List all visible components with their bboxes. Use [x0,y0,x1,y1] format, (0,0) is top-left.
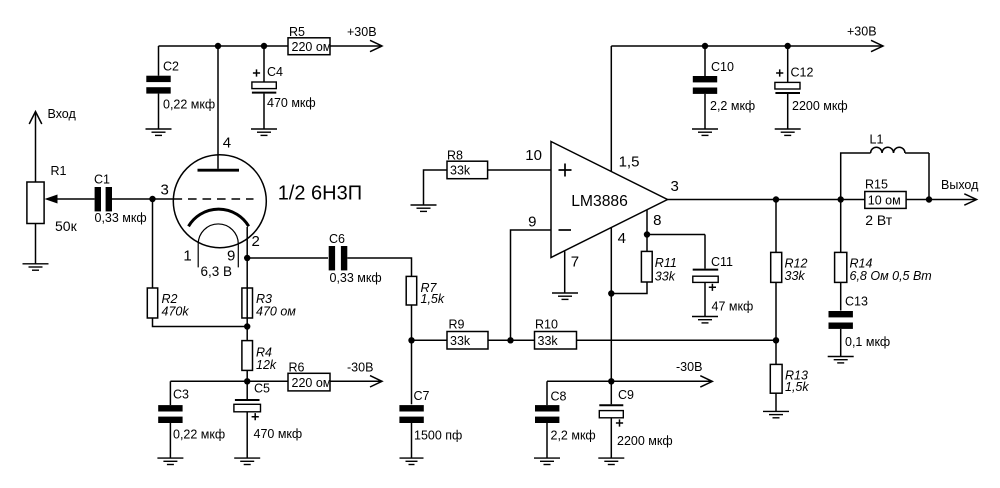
resistor R13 1,5k [770,364,809,411]
node R15/L1 right junction [926,196,932,202]
svg-text:9: 9 [528,213,536,230]
capacitor C2 0,22 мкф [146,46,215,129]
wire R7 bottom through feedback node to C7 [411,305,413,404]
svg-text:220 ом: 220 ом [292,376,332,390]
wire grid node down to R2 [152,199,154,288]
tube grid (dashed) pin 3 [161,181,254,199]
svg-text:1,5: 1,5 [619,153,640,170]
ground under C3 [157,458,183,464]
inductor L1 [841,133,929,200]
capacitor C5 470 мкф electrolytic [234,381,302,458]
capacitor C11 47 мкф electrolytic [693,235,754,317]
node anode/C2 junction [215,43,221,49]
resistor R9 33k [447,318,488,350]
+30V rail left wire [159,45,289,47]
svg-text:9: 9 [227,247,235,264]
wire C6 to R7 [347,258,411,276]
node R7/C7/R9 junction [408,337,414,343]
node R2/R3/R4 junction [244,323,250,329]
ground under C11 [692,317,718,323]
svg-text:+30В: +30В [347,25,377,39]
node -30В left arrow [330,361,382,388]
svg-text:2,2 мкф: 2,2 мкф [551,429,596,443]
wire pin 9 inverting input [511,230,552,340]
svg-text:Выход: Выход [941,178,979,192]
wire R2 bottom to R3/R4 column [153,318,248,327]
wire +30V rail right [611,45,883,47]
ground under C2 [146,129,172,135]
pin 8 wire mute [647,210,661,252]
node pin8/R11/C11 junction [644,231,650,237]
ground under C4 [251,129,277,135]
svg-text:33k: 33k [785,269,806,283]
svg-text:C12: C12 [791,66,814,80]
capacitor C1 0,33 мкф [94,173,147,226]
wire R3 to R4 [246,258,248,341]
op-amp U1 LM3886 [551,142,668,258]
resistor R11 33k [641,251,676,283]
resistor R6 220 ом [288,361,331,391]
svg-text:33k: 33k [450,334,471,348]
node Вход (input arrow and label) [29,107,76,182]
pin 7 wire to ground [565,251,579,293]
wire pin8 node to C11 [647,234,705,236]
ground under C9 [598,458,624,464]
svg-text:10 ом: 10 ом [868,194,901,208]
wire R4 bottom to -30V node [246,370,248,381]
svg-text:L1: L1 [870,133,884,147]
svg-text:R6: R6 [289,361,305,375]
svg-text:4: 4 [223,134,231,151]
svg-text:470 мкф: 470 мкф [254,427,303,441]
svg-text:0,1 мкф: 0,1 мкф [845,335,890,349]
svg-text:R9: R9 [449,318,465,332]
svg-text:R15: R15 [865,178,888,192]
svg-text:3: 3 [161,181,169,198]
svg-text:0,33 мкф: 0,33 мкф [330,271,382,285]
node R10/R12/R13 junction [773,337,779,343]
svg-text:-30В: -30В [676,360,702,374]
arrow +30В right [847,25,883,52]
resistor R8 33k [447,149,488,179]
ground under R1 [23,264,49,270]
svg-text:C3: C3 [173,388,189,402]
capacitor C7 1500 пф [399,389,462,458]
wire cathode node to C6 [247,257,328,259]
svg-text:1,5k: 1,5k [785,380,809,394]
capacitor C3 0,22 мкф [158,381,225,458]
node R9/R10/pin9 junction [507,337,513,343]
ground under C13 [828,357,854,363]
svg-text:12k: 12k [256,358,277,372]
node grid junction [149,196,155,202]
ground under C8 [534,458,560,464]
svg-text:C7: C7 [414,389,430,403]
node output/R12 junction [773,196,779,202]
capacitor C13 0,1 мкф [829,295,891,357]
resistor R12 33k [771,200,808,365]
svg-text:LM3886: LM3886 [571,193,628,210]
resistor R7 1,5k [406,276,445,306]
svg-text:470 мкф: 470 мкф [267,96,316,110]
resistor R4 12k [242,341,277,373]
wire R8 left to ground [424,170,448,205]
wire -30V line right [547,380,712,382]
node R4/C3/C5/R6 junction [244,378,250,384]
capacitor C10 2,2 мкф [693,46,755,129]
svg-text:-30В: -30В [347,361,373,375]
svg-text:0,22 мкф: 0,22 мкф [163,98,215,112]
wire C1 to grid node [112,198,174,200]
node C12 junction [785,43,791,49]
capacitor C12 2200 мкф electrolytic [775,46,848,129]
resistor R14 6,8 Ом 0,5 Вт [835,200,932,311]
svg-text:470 ом: 470 ом [256,305,296,319]
svg-text:0,22 мкф: 0,22 мкф [173,428,225,442]
svg-text:R10: R10 [535,318,558,332]
svg-text:2,2 мкф: 2,2 мкф [710,99,755,113]
ground under R13 [763,411,789,417]
svg-text:1: 1 [183,247,191,264]
ground under C5 [234,458,260,464]
svg-text:C5: C5 [254,382,270,396]
wire output from pin 3 [668,199,977,201]
node L1/R15/R14 left junction [838,196,844,202]
svg-text:47 мкф: 47 мкф [712,300,754,314]
wire R11 bottom to pin4 column [611,282,647,294]
pin 1,5 supply wire [611,46,639,172]
wire R8 to pin 10 [488,169,551,171]
svg-text:0,33 мкф: 0,33 мкф [95,211,147,225]
node C10 junction [702,43,708,49]
svg-text:2200 мкф: 2200 мкф [617,434,673,448]
svg-text:3: 3 [671,178,679,195]
tube anode pin 4 [198,46,240,170]
node cathode output junction [244,255,250,261]
svg-text:6,8 Ом 0,5 Вт: 6,8 Ом 0,5 Вт [850,269,932,283]
node C9/pin4 junction on -30V line [608,378,614,384]
ground under pin 7 [552,293,578,299]
arrow -30В right [676,360,712,387]
node +30В left arrow [330,25,382,52]
svg-text:4: 4 [618,230,626,247]
svg-text:C6: C6 [329,232,345,246]
svg-text:R8: R8 [447,149,463,163]
svg-text:1500 пф: 1500 пф [414,429,462,443]
wire feedback line R9 R10 [412,339,777,341]
resistor R10 33k [535,318,577,350]
svg-text:R11: R11 [655,256,677,270]
svg-text:8: 8 [653,212,661,229]
capacitor C8 2,2 мкф [535,381,596,458]
svg-text:C10: C10 [711,60,734,74]
svg-text:33k: 33k [538,334,559,348]
svg-text:2 Вт: 2 Вт [865,212,893,228]
capacitor C6 0,33 мкф [329,232,382,285]
svg-text:C9: C9 [618,388,634,402]
svg-text:R5: R5 [289,25,305,39]
resistor R1 potentiometer 50k [27,164,78,234]
ground under C10 [692,129,718,135]
svg-text:R1: R1 [51,164,67,178]
tube heater pins 1 and 9, 6,3 В [183,224,238,279]
svg-text:2: 2 [252,233,260,250]
svg-text:Вход: Вход [48,107,77,121]
svg-text:+30В: +30В [847,25,877,39]
node C4 junction [261,43,267,49]
svg-text:50к: 50к [55,218,78,234]
svg-text:C13: C13 [845,295,868,309]
svg-text:C4: C4 [267,65,283,79]
svg-text:C8: C8 [551,390,567,404]
svg-text:33k: 33k [450,164,471,178]
svg-text:C1: C1 [94,173,110,187]
node R11/pin4 junction [608,290,614,296]
wire R1 bottom to ground [35,224,37,264]
capacitor C9 2200 мкф electrolytic [599,381,672,458]
svg-text:C11: C11 [711,255,733,269]
resistor R3 470 ом [242,288,296,319]
tube cathode pin 2 [189,209,260,258]
pin 4 wire down to -30V [611,228,626,382]
ground under C7 [400,458,424,464]
svg-text:1/2 6Н3П: 1/2 6Н3П [278,182,362,204]
tube 1/2 6Н3П envelope [173,155,362,248]
wire R1 wiper to C1 [52,198,95,200]
svg-text:10: 10 [525,147,542,164]
ground under C12 [775,129,801,135]
wire -30V feed line left [170,380,288,382]
svg-text:6,3 В: 6,3 В [201,264,233,279]
svg-text:2200 мкф: 2200 мкф [792,99,848,113]
resistor R5 220 ом [288,25,331,55]
svg-text:220 ом: 220 ом [292,40,332,54]
resistor R2 470k [147,288,189,319]
svg-text:7: 7 [571,254,579,271]
resistor R15 10 ом 2 Вт [865,178,906,229]
capacitor C4 470 мкф electrolytic [252,46,316,129]
svg-text:33k: 33k [655,269,676,283]
svg-text:470k: 470k [162,305,190,319]
svg-text:1,5k: 1,5k [421,292,445,306]
ground under R8 [411,205,437,211]
svg-text:C2: C2 [163,60,179,74]
arrow Выход output [941,178,979,205]
